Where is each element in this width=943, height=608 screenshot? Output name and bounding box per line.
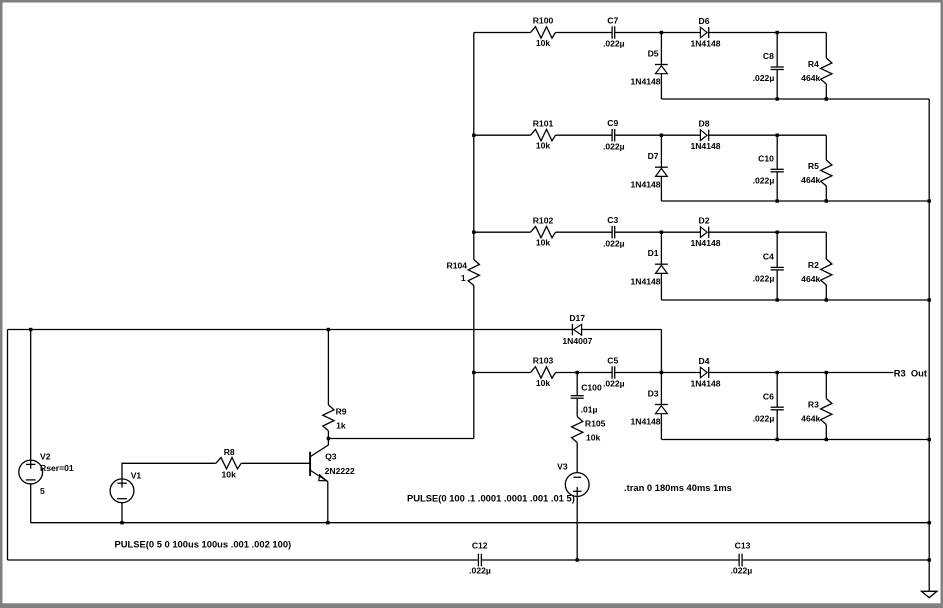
node row4-c100 [576, 371, 579, 374]
svg-text:10k: 10k [222, 469, 237, 479]
wire row4 mid1 [556, 372, 612, 374]
svg-text:D1: D1 [648, 248, 659, 258]
node rail4-bus [928, 438, 931, 441]
svg-text:.022µ: .022µ [753, 73, 775, 83]
wire d17 left [8, 329, 573, 331]
svg-text:.022µ: .022µ [753, 413, 775, 423]
svg-text:2N2222: 2N2222 [325, 466, 355, 476]
wire row3 mid2 [615, 231, 700, 233]
svg-text:C8: C8 [763, 51, 774, 61]
node rail3-r [825, 298, 828, 301]
ground [922, 591, 937, 597]
svg-text:.022µ: .022µ [603, 379, 625, 389]
wire row4 mid2 [615, 372, 700, 374]
node vrail-v1 [120, 521, 123, 524]
resistor R103 [531, 356, 556, 388]
wire row2 left [474, 134, 531, 136]
capacitor C7 [603, 15, 625, 48]
wire row4 right [709, 372, 894, 374]
svg-text:C4: C4 [763, 251, 774, 261]
svg-text:1N4148: 1N4148 [630, 179, 660, 189]
node rail1-c [776, 97, 779, 100]
svg-text:C5: C5 [607, 355, 618, 365]
wire r9 bottom [327, 431, 329, 439]
svg-text:PULSE(0 5 0 100us 100us .001 .: PULSE(0 5 0 100us 100us .001 .002 100) [115, 538, 292, 549]
node vrail-q3 [326, 521, 329, 524]
svg-text:R3 Out: R3 Out [894, 367, 927, 378]
node row4-r3 [825, 371, 828, 374]
node row1-d [660, 31, 663, 34]
svg-text:R3: R3 [808, 400, 819, 410]
svg-text:D3: D3 [648, 388, 659, 398]
svg-text:D6: D6 [699, 16, 710, 26]
svg-text:V1: V1 [131, 471, 142, 481]
svg-text:.01µ: .01µ [581, 405, 598, 415]
resistor R2 [801, 232, 832, 300]
node rail1-r [825, 97, 828, 100]
capacitor C12 [469, 540, 491, 575]
node row4-c6 [776, 371, 779, 374]
diode D17 [562, 313, 592, 346]
svg-text:D5: D5 [648, 48, 659, 58]
node rail4-r [825, 438, 828, 441]
svg-text:R103: R103 [533, 356, 554, 366]
diode D4 [690, 356, 720, 389]
capacitor C6 [753, 373, 784, 440]
node rail2-bus [928, 199, 931, 202]
wire row1 mid2 [615, 32, 700, 34]
node row1-c [776, 31, 779, 34]
wire row3 right [709, 231, 827, 233]
node row2-d [660, 134, 663, 137]
resistor R4 [801, 33, 832, 100]
node row4-d [660, 371, 663, 374]
voltage source V2 [19, 451, 74, 496]
wire row1 right [709, 32, 827, 34]
svg-text:.022µ: .022µ [753, 176, 775, 186]
node grail-v3 [576, 558, 579, 561]
svg-text:V2: V2 [40, 451, 51, 461]
svg-text:1N4148: 1N4148 [630, 276, 660, 286]
node vrail-bus [928, 521, 931, 524]
svg-text:Q3: Q3 [325, 451, 337, 461]
node d17-v2 [29, 328, 32, 331]
svg-text:R5: R5 [808, 161, 819, 171]
wire v2 top [30, 330, 32, 461]
node rail2-r [825, 199, 828, 202]
wire left bus lower [473, 286, 475, 439]
svg-text:R100: R100 [533, 16, 554, 26]
wire left bus upper [473, 33, 475, 260]
resistor R104 [447, 260, 480, 286]
svg-text:10k: 10k [536, 141, 551, 151]
svg-text:C13: C13 [735, 540, 751, 550]
wire v1 top [122, 463, 216, 478]
wire rail4 [661, 439, 929, 441]
wire v-rail [31, 522, 930, 524]
svg-text:R2: R2 [808, 260, 819, 270]
svg-text:.022µ: .022µ [603, 39, 625, 49]
svg-text:1N4148: 1N4148 [690, 238, 720, 248]
svg-text:.022µ: .022µ [603, 141, 625, 151]
resistor R3 [801, 373, 832, 440]
wire row3 left [474, 231, 531, 233]
resistor R9 [323, 405, 347, 431]
wire collector to bus [328, 438, 473, 440]
wire v3 bottom [576, 496, 578, 560]
svg-text:1N4148: 1N4148 [690, 141, 720, 151]
diode D1 [630, 232, 667, 300]
svg-text:.022µ: .022µ [753, 274, 775, 284]
diode D3 [630, 373, 667, 440]
svg-text:1N4148: 1N4148 [690, 38, 720, 48]
diode D5 [630, 33, 667, 100]
svg-text:1N4007: 1N4007 [562, 336, 592, 346]
svg-text:C9: C9 [607, 118, 618, 128]
svg-text:1N4148: 1N4148 [690, 378, 720, 388]
svg-text:Rser=01: Rser=01 [40, 463, 74, 473]
diode D8 [690, 119, 720, 152]
svg-text:1N4148: 1N4148 [630, 77, 660, 87]
svg-text:10k: 10k [536, 238, 551, 248]
diode D2 [690, 216, 720, 249]
transistor Q3 [310, 439, 355, 523]
wire v1 bottom [121, 503, 123, 523]
svg-text:C7: C7 [607, 15, 618, 25]
wire right bus [928, 99, 930, 591]
wire rail2 [661, 200, 929, 202]
wire row2 mid2 [615, 134, 700, 136]
wire v2 bottom [30, 484, 32, 523]
svg-text:V3: V3 [557, 461, 568, 471]
svg-text:5: 5 [40, 486, 45, 496]
wire row2 mid1 [556, 134, 612, 136]
node rail3-c [776, 298, 779, 301]
svg-text:R104: R104 [447, 260, 468, 270]
wire row2 right [709, 134, 827, 136]
svg-text:.022µ: .022µ [469, 566, 491, 576]
node row2-c [776, 134, 779, 137]
svg-text:1: 1 [461, 273, 466, 283]
node row3-d [660, 231, 663, 234]
svg-text:R4: R4 [808, 59, 819, 69]
node row4-bus [472, 371, 475, 374]
resistor R100 [531, 16, 556, 48]
node rail3-bus [928, 298, 931, 301]
wire d17 right [582, 329, 662, 331]
node d17-r9 [327, 328, 330, 331]
voltage source V3 [557, 461, 589, 496]
wire ground rail mid [482, 559, 738, 561]
svg-text:.022µ: .022µ [603, 238, 625, 248]
svg-text:D4: D4 [699, 356, 710, 366]
capacitor C8 [753, 33, 784, 100]
svg-text:C3: C3 [607, 215, 618, 225]
capacitor C3 [603, 215, 625, 248]
svg-text:D2: D2 [699, 216, 710, 226]
node bus-row3 [472, 231, 475, 234]
wire row1 left [474, 32, 531, 34]
capacitor C13 [731, 540, 753, 575]
node row3-c [776, 231, 779, 234]
capacitor C5 [603, 355, 625, 388]
capacitor C4 [753, 232, 784, 300]
svg-text:D7: D7 [648, 151, 659, 161]
wire left border [7, 330, 9, 561]
diode D6 [690, 16, 720, 49]
wire row4 left [474, 372, 531, 374]
node grail-bus [928, 558, 931, 561]
svg-text:C12: C12 [472, 540, 488, 550]
svg-text:464k: 464k [801, 73, 820, 83]
svg-text:C6: C6 [763, 391, 774, 401]
resistor R8 [216, 447, 241, 479]
wire rail1 [661, 98, 929, 100]
node collector [327, 437, 330, 440]
node rail4-c [776, 438, 779, 441]
wire ground rail left [8, 559, 478, 561]
svg-text:C10: C10 [758, 153, 774, 163]
node bus-row2 [472, 134, 475, 137]
resistor R5 [801, 135, 832, 201]
wire d17 drop [660, 330, 662, 373]
svg-text:.022µ: .022µ [731, 566, 753, 576]
resistor R102 [531, 215, 556, 247]
svg-text:10k: 10k [536, 38, 551, 48]
voltage source V1 [110, 471, 141, 503]
svg-text:R105: R105 [585, 419, 606, 429]
svg-text:R101: R101 [533, 118, 554, 128]
capacitor C10 [753, 135, 784, 201]
svg-text:.tran 0 180ms 40ms 1ms: .tran 0 180ms 40ms 1ms [624, 482, 732, 493]
node rail2-c [776, 199, 779, 202]
diode D7 [630, 135, 667, 201]
svg-text:1N4148: 1N4148 [630, 417, 660, 427]
wire base [241, 462, 310, 464]
svg-text:1k: 1k [336, 421, 346, 431]
svg-text:464k: 464k [801, 175, 820, 185]
svg-text:C100: C100 [581, 383, 602, 393]
svg-text:464k: 464k [801, 274, 820, 284]
wire rail3 [661, 299, 929, 301]
svg-text:R8: R8 [224, 447, 235, 457]
svg-text:D8: D8 [699, 119, 710, 129]
svg-text:10k: 10k [586, 432, 601, 442]
wire row1 mid1 [556, 32, 612, 34]
capacitor C9 [603, 118, 625, 151]
resistor R101 [531, 118, 556, 150]
svg-text:R9: R9 [336, 406, 347, 416]
wire r9 top [327, 330, 329, 405]
capacitor C100 [571, 373, 602, 417]
svg-text:D17: D17 [569, 313, 585, 323]
svg-text:10k: 10k [536, 378, 551, 388]
svg-text:PULSE(0 100 .1 .0001 .0001 .00: PULSE(0 100 .1 .0001 .0001 .001 .01 5) [407, 492, 575, 503]
svg-text:R102: R102 [533, 215, 554, 225]
svg-text:464k: 464k [801, 414, 820, 424]
wire ground rail right [743, 559, 929, 561]
wire row3 mid1 [556, 231, 612, 233]
resistor R105 [572, 417, 606, 473]
